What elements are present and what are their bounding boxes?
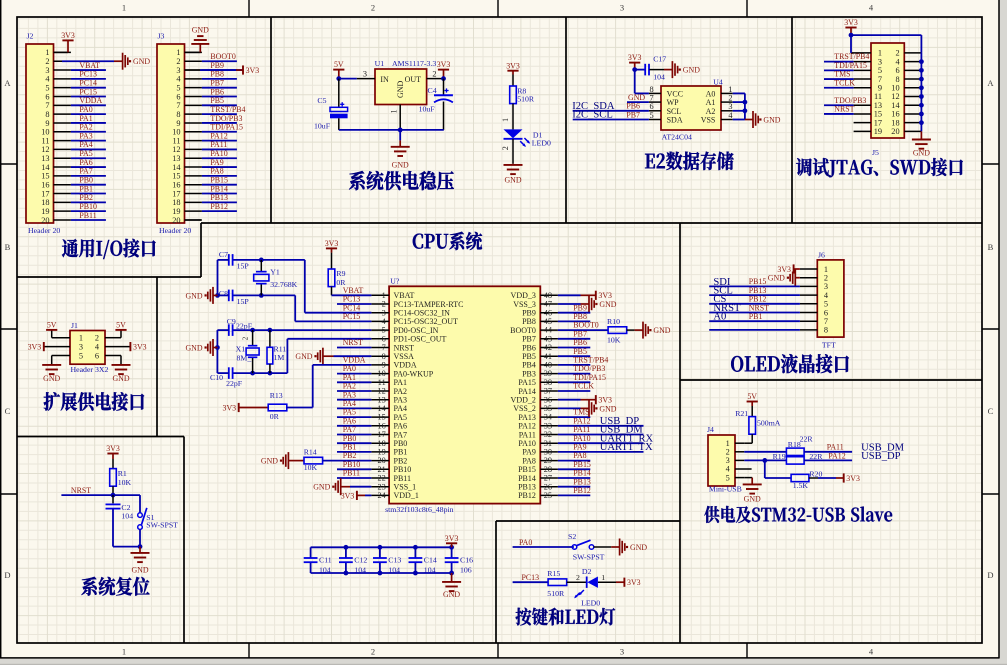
svg-text:1M: 1M bbox=[274, 353, 285, 362]
svg-text:PA0: PA0 bbox=[343, 364, 356, 373]
svg-text:PA12: PA12 bbox=[573, 416, 590, 425]
svg-text:C14: C14 bbox=[424, 556, 437, 565]
svg-text:18: 18 bbox=[41, 198, 49, 207]
svg-text:Header 20: Header 20 bbox=[28, 226, 60, 235]
svg-text:3: 3 bbox=[728, 102, 732, 111]
svg-text:17: 17 bbox=[172, 189, 180, 198]
svg-text:BOOT0: BOOT0 bbox=[510, 326, 536, 335]
svg-text:PB1: PB1 bbox=[79, 184, 93, 193]
svg-text:LED0: LED0 bbox=[581, 598, 600, 607]
svg-text:PB7: PB7 bbox=[210, 78, 224, 87]
svg-text:J5: J5 bbox=[872, 148, 879, 157]
svg-text:2: 2 bbox=[176, 57, 180, 66]
svg-text:C17: C17 bbox=[653, 55, 666, 64]
svg-text:Header 20: Header 20 bbox=[159, 226, 191, 235]
svg-text:VSS_3: VSS_3 bbox=[513, 300, 536, 309]
svg-text:X1: X1 bbox=[236, 345, 246, 354]
svg-text:1: 1 bbox=[728, 85, 732, 94]
svg-text:11: 11 bbox=[874, 92, 882, 101]
svg-text:PD0-OSC_IN: PD0-OSC_IN bbox=[394, 326, 439, 335]
svg-text:R13: R13 bbox=[270, 391, 283, 400]
svg-text:22R: 22R bbox=[809, 452, 823, 461]
svg-text:PB1: PB1 bbox=[343, 443, 357, 452]
svg-text:PA0: PA0 bbox=[79, 105, 92, 114]
svg-text:PB5: PB5 bbox=[210, 96, 224, 105]
svg-text:30: 30 bbox=[544, 448, 552, 457]
svg-text:B: B bbox=[988, 242, 994, 252]
svg-text:PA11: PA11 bbox=[519, 430, 536, 439]
svg-text:35: 35 bbox=[544, 404, 552, 413]
svg-text:PB8: PB8 bbox=[522, 317, 536, 326]
svg-text:Mini-USB: Mini-USB bbox=[709, 485, 742, 494]
svg-text:TDI/PA15: TDI/PA15 bbox=[210, 123, 243, 132]
svg-text:D: D bbox=[4, 570, 10, 580]
svg-text:44: 44 bbox=[544, 326, 553, 335]
svg-text:15: 15 bbox=[378, 413, 386, 422]
svg-text:5: 5 bbox=[650, 111, 654, 120]
svg-text:15P: 15P bbox=[237, 297, 250, 306]
svg-text:C8: C8 bbox=[219, 289, 228, 298]
svg-text:BOOT0: BOOT0 bbox=[210, 52, 235, 61]
svg-text:510R: 510R bbox=[547, 589, 565, 598]
svg-text:LED0: LED0 bbox=[532, 139, 551, 148]
svg-text:500mA: 500mA bbox=[757, 419, 781, 428]
svg-text:VDD_3: VDD_3 bbox=[511, 291, 536, 300]
svg-text:PB8: PB8 bbox=[210, 70, 224, 79]
svg-text:I2C_SCL: I2C_SCL bbox=[572, 110, 613, 121]
svg-text:PA2: PA2 bbox=[343, 382, 356, 391]
svg-text:3: 3 bbox=[620, 3, 624, 13]
svg-text:PB8: PB8 bbox=[573, 312, 587, 321]
svg-text:GND: GND bbox=[630, 543, 647, 552]
svg-text:104: 104 bbox=[388, 565, 400, 574]
svg-text:TDO/PB3: TDO/PB3 bbox=[834, 96, 866, 105]
svg-text:Header 3X2: Header 3X2 bbox=[71, 365, 109, 374]
svg-text:18: 18 bbox=[891, 118, 899, 127]
svg-text:16: 16 bbox=[891, 110, 899, 119]
svg-text:PA5: PA5 bbox=[79, 149, 92, 158]
svg-text:TRST/PB4: TRST/PB4 bbox=[834, 52, 869, 61]
svg-text:PC15: PC15 bbox=[79, 87, 97, 96]
svg-text:GND: GND bbox=[768, 274, 785, 283]
svg-text:PB11: PB11 bbox=[343, 469, 360, 478]
svg-text:3V3: 3V3 bbox=[445, 534, 459, 543]
svg-text:104: 104 bbox=[319, 565, 331, 574]
svg-text:VDD_2: VDD_2 bbox=[511, 396, 536, 405]
svg-text:14: 14 bbox=[41, 163, 50, 172]
svg-text:19: 19 bbox=[874, 127, 882, 136]
svg-text:2: 2 bbox=[371, 647, 375, 657]
svg-text:VSS_1: VSS_1 bbox=[394, 483, 417, 492]
svg-text:GND: GND bbox=[295, 352, 312, 361]
svg-text:U?: U? bbox=[390, 277, 400, 286]
svg-text:26: 26 bbox=[544, 482, 552, 491]
svg-text:25: 25 bbox=[544, 491, 552, 500]
svg-text:31: 31 bbox=[544, 439, 552, 448]
svg-text:PB6: PB6 bbox=[573, 338, 587, 347]
svg-text:TCLK: TCLK bbox=[834, 78, 855, 87]
svg-text:10: 10 bbox=[378, 369, 386, 378]
svg-text:GND: GND bbox=[185, 344, 202, 353]
svg-text:1: 1 bbox=[122, 647, 126, 657]
svg-text:R15: R15 bbox=[547, 569, 560, 578]
svg-text:A0: A0 bbox=[706, 89, 716, 98]
svg-text:PB2: PB2 bbox=[79, 193, 93, 202]
svg-text:1: 1 bbox=[824, 265, 828, 274]
svg-text:3: 3 bbox=[620, 647, 624, 657]
svg-text:3V3: 3V3 bbox=[844, 18, 858, 27]
svg-text:PB15: PB15 bbox=[210, 176, 228, 185]
svg-text:VBAT: VBAT bbox=[394, 291, 415, 300]
svg-text:PA9: PA9 bbox=[210, 158, 223, 167]
svg-text:33: 33 bbox=[544, 421, 552, 430]
svg-text:SW-SPST: SW-SPST bbox=[573, 552, 605, 561]
svg-text:SW-SPST: SW-SPST bbox=[146, 521, 178, 530]
svg-text:R19: R19 bbox=[773, 452, 786, 461]
svg-text:2: 2 bbox=[501, 146, 510, 150]
svg-text:7: 7 bbox=[382, 343, 386, 352]
svg-text:3V3: 3V3 bbox=[223, 403, 237, 412]
svg-text:PB12: PB12 bbox=[518, 491, 536, 500]
svg-text:UART1_TX: UART1_TX bbox=[600, 442, 653, 453]
svg-text:PB6: PB6 bbox=[522, 343, 536, 352]
svg-text:13: 13 bbox=[172, 154, 180, 163]
svg-text:TDO/PB3: TDO/PB3 bbox=[573, 364, 605, 373]
svg-text:20: 20 bbox=[172, 216, 180, 225]
svg-text:VSS_2: VSS_2 bbox=[513, 404, 536, 413]
svg-text:PB9: PB9 bbox=[522, 309, 536, 318]
svg-text:VBAT: VBAT bbox=[79, 61, 100, 70]
svg-text:PA4: PA4 bbox=[394, 404, 408, 413]
svg-text:2: 2 bbox=[95, 334, 99, 343]
svg-text:R10: R10 bbox=[607, 317, 620, 326]
svg-text:24: 24 bbox=[378, 491, 387, 500]
svg-text:A1: A1 bbox=[706, 98, 716, 107]
svg-text:VBAT: VBAT bbox=[343, 286, 364, 295]
svg-text:6: 6 bbox=[176, 92, 180, 101]
svg-text:PB14: PB14 bbox=[518, 474, 536, 483]
svg-text:PA1: PA1 bbox=[79, 114, 92, 123]
svg-text:PA3: PA3 bbox=[79, 131, 92, 140]
svg-text:GND: GND bbox=[185, 291, 202, 300]
svg-text:3V3: 3V3 bbox=[437, 60, 451, 69]
svg-text:GND: GND bbox=[599, 404, 616, 413]
svg-text:PD1-OSC_OUT: PD1-OSC_OUT bbox=[394, 335, 447, 344]
svg-text:8: 8 bbox=[824, 326, 828, 335]
svg-text:40: 40 bbox=[544, 361, 552, 370]
svg-text:PC13-TAMPER-RTC: PC13-TAMPER-RTC bbox=[394, 300, 464, 309]
svg-text:PA5: PA5 bbox=[343, 408, 356, 417]
svg-text:48: 48 bbox=[544, 291, 552, 300]
svg-text:19: 19 bbox=[378, 448, 386, 457]
svg-text:6: 6 bbox=[382, 334, 386, 343]
svg-text:5V: 5V bbox=[334, 60, 344, 69]
svg-text:14: 14 bbox=[378, 404, 387, 413]
svg-text:B: B bbox=[5, 242, 11, 252]
svg-text:PA6: PA6 bbox=[79, 158, 92, 167]
svg-text:PA4: PA4 bbox=[343, 399, 356, 408]
svg-text:TFT: TFT bbox=[822, 340, 836, 349]
svg-text:PB2: PB2 bbox=[394, 456, 408, 465]
svg-text:PB13: PB13 bbox=[518, 483, 536, 492]
svg-text:510R: 510R bbox=[517, 95, 535, 104]
svg-text:C: C bbox=[5, 406, 11, 416]
svg-text:37: 37 bbox=[544, 387, 552, 396]
svg-text:3V3: 3V3 bbox=[28, 343, 42, 352]
svg-text:PB3: PB3 bbox=[522, 369, 536, 378]
svg-text:TRST/PB4: TRST/PB4 bbox=[573, 356, 608, 365]
svg-text:WP: WP bbox=[667, 98, 680, 107]
svg-text:12: 12 bbox=[172, 145, 180, 154]
svg-text:IN: IN bbox=[380, 75, 389, 84]
svg-text:PB6: PB6 bbox=[626, 102, 640, 111]
svg-text:2: 2 bbox=[242, 336, 250, 340]
svg-text:3: 3 bbox=[79, 343, 83, 352]
svg-text:1: 1 bbox=[79, 334, 83, 343]
svg-text:9: 9 bbox=[382, 361, 386, 370]
svg-text:PA2: PA2 bbox=[79, 123, 92, 132]
svg-text:GND: GND bbox=[192, 26, 209, 35]
svg-text:PB15: PB15 bbox=[573, 460, 591, 469]
svg-text:NRST: NRST bbox=[394, 343, 415, 352]
svg-text:17: 17 bbox=[41, 189, 49, 198]
svg-text:5V: 5V bbox=[747, 392, 757, 401]
svg-text:1: 1 bbox=[122, 3, 126, 13]
svg-text:8: 8 bbox=[176, 110, 180, 119]
svg-text:16: 16 bbox=[41, 181, 49, 190]
svg-text:104: 104 bbox=[121, 511, 133, 520]
svg-text:PA11: PA11 bbox=[210, 140, 227, 149]
svg-text:VSS: VSS bbox=[701, 116, 716, 125]
svg-text:12: 12 bbox=[891, 92, 899, 101]
svg-text:19: 19 bbox=[172, 207, 180, 216]
svg-text:5: 5 bbox=[176, 83, 180, 92]
svg-text:41: 41 bbox=[544, 352, 552, 361]
svg-text:VDD_1: VDD_1 bbox=[394, 491, 419, 500]
svg-text:7: 7 bbox=[878, 75, 882, 84]
svg-text:1: 1 bbox=[390, 109, 399, 113]
svg-text:S2: S2 bbox=[568, 532, 576, 541]
svg-text:3V3: 3V3 bbox=[846, 474, 860, 483]
svg-text:NRST: NRST bbox=[71, 486, 91, 495]
svg-text:PA6: PA6 bbox=[394, 422, 408, 431]
svg-text:J4: J4 bbox=[707, 425, 714, 434]
svg-text:22: 22 bbox=[378, 474, 386, 483]
svg-text:3V3: 3V3 bbox=[341, 491, 355, 500]
svg-text:PA15: PA15 bbox=[518, 378, 536, 387]
svg-text:VDDA: VDDA bbox=[394, 361, 417, 370]
svg-text:5: 5 bbox=[878, 66, 882, 75]
svg-text:A: A bbox=[987, 78, 994, 88]
svg-text:TDI/PA15: TDI/PA15 bbox=[834, 61, 867, 70]
svg-text:PA0-WKUP: PA0-WKUP bbox=[394, 369, 434, 378]
svg-text:GND: GND bbox=[683, 66, 700, 75]
svg-text:J2: J2 bbox=[27, 31, 34, 40]
svg-text:6: 6 bbox=[650, 102, 654, 111]
svg-text:PB13: PB13 bbox=[210, 193, 228, 202]
svg-text:J3: J3 bbox=[158, 31, 165, 40]
svg-text:R21: R21 bbox=[735, 409, 748, 418]
svg-text:PB7: PB7 bbox=[626, 110, 640, 119]
svg-text:A: A bbox=[4, 78, 11, 88]
svg-text:7: 7 bbox=[176, 101, 180, 110]
svg-text:0R: 0R bbox=[270, 412, 280, 421]
svg-text:PC15-OSC32_OUT: PC15-OSC32_OUT bbox=[394, 317, 459, 326]
svg-text:14: 14 bbox=[172, 163, 181, 172]
svg-text:C10: C10 bbox=[210, 373, 223, 382]
svg-text:15: 15 bbox=[172, 172, 180, 181]
svg-text:OUT: OUT bbox=[405, 75, 422, 84]
svg-text:8: 8 bbox=[45, 110, 49, 119]
svg-text:TDI/PA15: TDI/PA15 bbox=[573, 373, 606, 382]
svg-text:PA7: PA7 bbox=[343, 425, 356, 434]
svg-text:PA7: PA7 bbox=[79, 167, 92, 176]
svg-text:PA13: PA13 bbox=[518, 413, 536, 422]
svg-text:PB5: PB5 bbox=[522, 352, 536, 361]
svg-text:PC13: PC13 bbox=[79, 70, 97, 79]
svg-text:3V3: 3V3 bbox=[325, 239, 339, 248]
svg-text:6: 6 bbox=[95, 352, 99, 361]
svg-text:32.768K: 32.768K bbox=[270, 280, 297, 289]
svg-text:7: 7 bbox=[650, 94, 654, 103]
svg-text:104: 104 bbox=[424, 565, 436, 574]
svg-text:PA12: PA12 bbox=[518, 422, 536, 431]
svg-text:J1: J1 bbox=[71, 321, 78, 330]
svg-text:3V3: 3V3 bbox=[61, 31, 75, 40]
svg-text:stm32f103c8t6_48pin: stm32f103c8t6_48pin bbox=[385, 505, 454, 514]
svg-text:11: 11 bbox=[173, 136, 181, 145]
svg-text:38: 38 bbox=[544, 378, 552, 387]
svg-text:USB_DP: USB_DP bbox=[861, 451, 901, 462]
svg-text:BOOT0: BOOT0 bbox=[573, 321, 598, 330]
svg-text:28: 28 bbox=[544, 465, 552, 474]
svg-text:2: 2 bbox=[895, 49, 899, 58]
svg-text:15: 15 bbox=[41, 172, 49, 181]
svg-text:PB11: PB11 bbox=[394, 474, 412, 483]
svg-text:45: 45 bbox=[544, 317, 552, 326]
svg-text:3V3: 3V3 bbox=[598, 396, 612, 405]
svg-text:U1: U1 bbox=[375, 59, 385, 68]
svg-text:PB12: PB12 bbox=[573, 486, 591, 495]
svg-text:18: 18 bbox=[378, 439, 386, 448]
svg-text:PB1: PB1 bbox=[749, 312, 763, 321]
svg-text:2: 2 bbox=[824, 274, 828, 283]
svg-text:3: 3 bbox=[45, 66, 49, 75]
svg-text:22pF: 22pF bbox=[236, 321, 253, 330]
svg-text:NRST: NRST bbox=[834, 105, 854, 114]
svg-text:GND: GND bbox=[599, 300, 616, 309]
svg-text:PA8: PA8 bbox=[522, 456, 536, 465]
svg-text:3V3: 3V3 bbox=[246, 66, 260, 75]
svg-text:D2: D2 bbox=[582, 567, 592, 576]
svg-text:2: 2 bbox=[382, 300, 386, 309]
svg-text:PB6: PB6 bbox=[210, 87, 224, 96]
svg-text:PA9: PA9 bbox=[573, 443, 586, 452]
svg-text:39: 39 bbox=[544, 369, 552, 378]
svg-text:7: 7 bbox=[45, 101, 49, 110]
svg-text:1: 1 bbox=[382, 291, 386, 300]
svg-text:2: 2 bbox=[576, 573, 580, 582]
svg-text:GND: GND bbox=[396, 80, 405, 98]
svg-text:C12: C12 bbox=[354, 556, 367, 565]
svg-text:3V3: 3V3 bbox=[627, 578, 641, 587]
svg-text:GND: GND bbox=[313, 483, 330, 492]
svg-text:C4: C4 bbox=[428, 86, 437, 95]
svg-text:PA0: PA0 bbox=[519, 538, 532, 547]
svg-text:PA6: PA6 bbox=[343, 416, 356, 425]
svg-text:27: 27 bbox=[544, 474, 552, 483]
svg-text:13: 13 bbox=[378, 395, 386, 404]
svg-text:SDA: SDA bbox=[667, 116, 683, 125]
svg-text:3V3: 3V3 bbox=[133, 343, 147, 352]
svg-text:47: 47 bbox=[544, 300, 552, 309]
svg-text:PA8: PA8 bbox=[573, 451, 586, 460]
svg-text:R1: R1 bbox=[118, 469, 127, 478]
svg-text:5: 5 bbox=[726, 473, 730, 482]
svg-text:U4: U4 bbox=[713, 77, 723, 86]
svg-text:Y1: Y1 bbox=[270, 268, 280, 277]
svg-text:PB12: PB12 bbox=[749, 295, 767, 304]
svg-text:17: 17 bbox=[378, 430, 386, 439]
svg-text:11: 11 bbox=[378, 378, 386, 387]
svg-text:15: 15 bbox=[874, 110, 882, 119]
svg-text:3: 3 bbox=[824, 282, 828, 291]
svg-text:J6: J6 bbox=[818, 250, 825, 259]
svg-text:6: 6 bbox=[824, 308, 828, 317]
svg-text:43: 43 bbox=[544, 334, 552, 343]
svg-text:42: 42 bbox=[544, 343, 552, 352]
svg-text:GND: GND bbox=[653, 326, 670, 335]
svg-text:GND: GND bbox=[443, 590, 460, 599]
svg-text:13: 13 bbox=[874, 101, 882, 110]
svg-text:2: 2 bbox=[432, 69, 436, 78]
svg-text:TRST/PB4: TRST/PB4 bbox=[210, 105, 245, 114]
svg-text:GND: GND bbox=[504, 175, 521, 184]
svg-text:34: 34 bbox=[544, 413, 553, 422]
svg-text:9: 9 bbox=[45, 119, 49, 128]
svg-text:C5: C5 bbox=[317, 96, 326, 105]
svg-text:TDO/PB3: TDO/PB3 bbox=[210, 114, 242, 123]
svg-text:PA12: PA12 bbox=[210, 131, 227, 140]
svg-text:1: 1 bbox=[176, 48, 180, 57]
svg-text:3V3: 3V3 bbox=[777, 265, 791, 274]
svg-text:PA3: PA3 bbox=[343, 390, 356, 399]
svg-text:D: D bbox=[987, 570, 993, 580]
svg-text:PC14-OSC32_IN: PC14-OSC32_IN bbox=[394, 309, 451, 318]
svg-text:2: 2 bbox=[371, 3, 375, 13]
svg-text:R9: R9 bbox=[336, 269, 345, 278]
svg-text:R20: R20 bbox=[809, 469, 822, 478]
svg-text:TMS: TMS bbox=[834, 70, 850, 79]
svg-text:5V: 5V bbox=[116, 321, 126, 330]
svg-text:10uF: 10uF bbox=[419, 105, 436, 114]
svg-text:PA10: PA10 bbox=[518, 439, 536, 448]
svg-text:PC13: PC13 bbox=[522, 573, 540, 582]
svg-text:NRST: NRST bbox=[749, 303, 769, 312]
svg-text:21: 21 bbox=[378, 465, 386, 474]
svg-text:13: 13 bbox=[41, 154, 49, 163]
svg-text:5: 5 bbox=[382, 326, 386, 335]
svg-text:6: 6 bbox=[45, 92, 49, 101]
svg-text:12: 12 bbox=[41, 145, 49, 154]
svg-text:PB0: PB0 bbox=[79, 176, 93, 185]
svg-text:PB12: PB12 bbox=[210, 202, 228, 211]
svg-text:PA12: PA12 bbox=[828, 452, 845, 461]
svg-text:R14: R14 bbox=[304, 447, 317, 456]
svg-text:106: 106 bbox=[460, 565, 472, 574]
svg-text:AMS1117-3.3: AMS1117-3.3 bbox=[392, 59, 436, 68]
svg-text:GND: GND bbox=[261, 457, 278, 466]
